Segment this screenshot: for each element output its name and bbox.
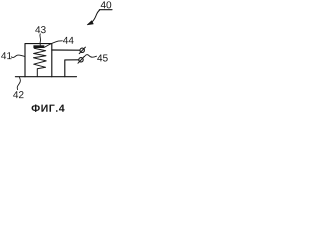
reference numeral 42 — [13, 91, 23, 98]
figure caption — [32, 105, 65, 112]
upper port symbol O/ — [80, 48, 84, 52]
lower port line — [65, 60, 79, 77]
lower port symbol O/ — [79, 58, 83, 62]
label 40 underline — [99, 9, 112, 11]
reference numeral 41 — [1, 52, 11, 59]
upper port line — [52, 49, 80, 51]
valve body box 41 — [25, 44, 52, 77]
leader 44 — [44, 41, 62, 48]
leader 41 — [11, 55, 24, 57]
arrow 40 tail — [92, 10, 99, 22]
reference numeral 44 — [63, 37, 74, 44]
base line 42 — [15, 76, 76, 78]
spring 43 — [34, 48, 47, 76]
spring seat plate — [33, 45, 44, 48]
reference numeral 43 — [35, 26, 45, 33]
arrowhead of 40 — [87, 21, 93, 25]
reference numeral 45 — [97, 55, 107, 62]
leader 43 — [39, 34, 42, 46]
leader 42 — [17, 77, 20, 89]
reference numeral 40 — [101, 1, 112, 8]
leader 45 — [84, 55, 96, 58]
